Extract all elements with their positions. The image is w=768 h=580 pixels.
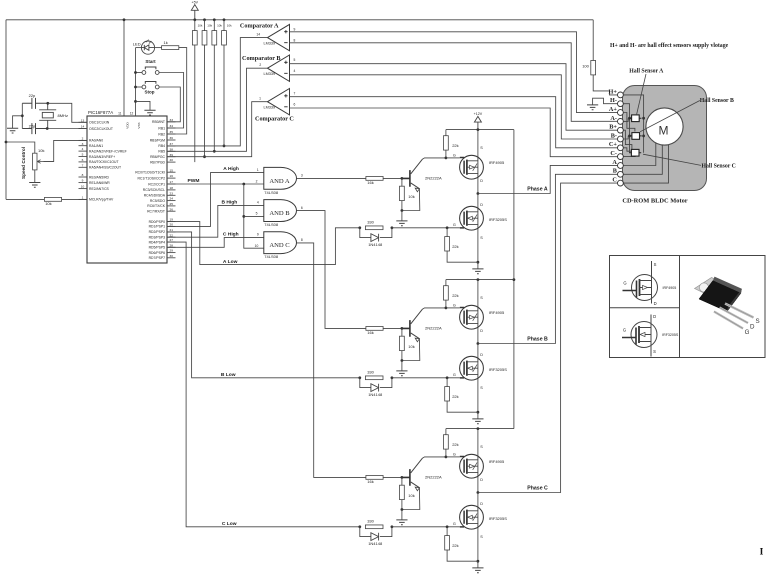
terminal C (618, 180, 624, 186)
wire pull-up4 to RB4 (223, 45, 225, 146)
svg-text:10k: 10k (408, 344, 414, 349)
pin 13 OSC1/CLKIN stub (79, 121, 88, 123)
junction base node C (401, 476, 404, 479)
wire IRF3205 S down A (477, 228, 479, 262)
svg-text:7: 7 (82, 163, 84, 167)
svg-text:RC5/SDO: RC5/SDO (150, 199, 165, 203)
svg-text:11: 11 (118, 112, 122, 116)
svg-text:3: 3 (82, 142, 84, 146)
junction RB6 pull-up (203, 155, 206, 158)
wire comparator B output to PIC (167, 68, 268, 151)
crystal X1 8MHz (42, 112, 53, 118)
svg-text:10k: 10k (217, 23, 222, 27)
svg-text:RD2/PSP2: RD2/PSP2 (149, 230, 166, 234)
svg-text:4: 4 (82, 147, 84, 151)
junction PWM to pin5 (242, 215, 245, 218)
svg-text:8: 8 (294, 39, 296, 43)
capacitor C2 22p (22, 123, 47, 134)
svg-text:2: 2 (256, 180, 258, 184)
junction gate node A (445, 157, 448, 160)
svg-text:IRF4905: IRF4905 (663, 286, 677, 290)
resistor 22k upper B (444, 286, 449, 300)
wire gate row C (392, 526, 460, 528)
pin 2 RA0/AN0 stub (79, 139, 88, 141)
wire C- to sensor (623, 155, 635, 157)
ground hall supply (587, 105, 598, 110)
pin 15 RC0/T1OSO/T1CKI stub (167, 171, 176, 173)
wire to power ground A (477, 262, 479, 268)
junction emitter 10k B (401, 359, 404, 362)
wire MCLR left (6, 198, 44, 200)
svg-text:D: D (480, 502, 483, 506)
wire hall V+ bus (623, 95, 643, 153)
svg-text:RC0/T1OSO/T1CKI: RC0/T1OSO/T1CKI (135, 171, 165, 175)
svg-text:Speed Control: Speed Control (21, 147, 26, 179)
svg-text:Stop: Stop (145, 89, 155, 94)
node pot top tap (5, 141, 8, 144)
svg-text:30: 30 (169, 254, 173, 258)
wire RD3 B High (167, 205, 264, 237)
diode 1N4148 A (360, 228, 392, 238)
svg-text:S: S (480, 445, 483, 449)
wire 10k bottom C (401, 500, 403, 510)
switch Start button (142, 71, 146, 75)
junction 330 left B (358, 376, 361, 379)
wire IRF3205 S down C (477, 527, 479, 561)
resistor 22k upper C (444, 435, 449, 449)
svg-text:2N2222A: 2N2222A (425, 325, 442, 330)
svg-text:15: 15 (169, 168, 173, 172)
svg-text:MCLR/Vpp/THV: MCLR/Vpp/THV (89, 198, 114, 202)
svg-text:18: 18 (169, 186, 173, 190)
pin 17 RC2/CCP1 stub (167, 183, 176, 185)
junction emitter 10k C (401, 508, 404, 511)
wire 22k bottom lead A (445, 150, 447, 158)
transistor QB 2N2222A (402, 320, 410, 337)
svg-text:G: G (453, 223, 456, 227)
ground driver B (396, 371, 407, 376)
svg-text:33: 33 (169, 118, 173, 122)
wire +12V feed row A (446, 129, 514, 131)
svg-text:B-: B- (611, 132, 617, 139)
leader Hall Sensor A (637, 74, 647, 115)
logic gate AND B 74LS08 (264, 200, 297, 222)
wire IRF3205 S down B (477, 378, 479, 412)
ground pot (29, 183, 40, 188)
node cap-gnd tap (21, 114, 24, 117)
pin 14 OSC2/CLKOUT stub (79, 128, 88, 130)
svg-text:22: 22 (169, 233, 173, 237)
svg-text:RD1/PSP1: RD1/PSP1 (149, 225, 166, 229)
svg-text:D: D (480, 353, 483, 357)
switch Stop button (142, 85, 146, 89)
pin 10 RE2/AN7/CS stub (79, 188, 88, 190)
svg-text:Hall Sensor C: Hall Sensor C (702, 164, 736, 170)
svg-text:20: 20 (169, 223, 173, 227)
pin 8 RE0/AN5/RD stub (79, 176, 88, 178)
terminal A+ (618, 110, 624, 116)
wire B+ to sensor (623, 130, 632, 149)
svg-text:40: 40 (169, 158, 173, 162)
pin 16 RC1/T1OSI/CCP2 stub (167, 177, 176, 179)
node OSC1 net (46, 102, 49, 105)
svg-text:38: 38 (169, 147, 173, 151)
junction 330 right C (391, 525, 394, 528)
svg-text:10: 10 (81, 185, 85, 189)
svg-text:2N2222A: 2N2222A (425, 175, 442, 180)
pin 23 RC4/SDI/SDA stub (167, 194, 176, 196)
motor M circle (646, 108, 683, 145)
wire PWM to AND B pin5 (244, 215, 264, 217)
junction sensor B V+ (642, 135, 645, 138)
svg-text:35: 35 (169, 130, 173, 134)
wire MCLR right (62, 198, 87, 200)
ground logic (144, 110, 155, 115)
svg-text:IRF3205S: IRF3205S (489, 217, 507, 222)
pin 33 RB0/INT stub (167, 121, 176, 123)
svg-text:S: S (654, 262, 657, 267)
resistor 10k pull-up 3 (212, 31, 217, 45)
node pull-up 4 rail tap (223, 18, 226, 21)
wire RD5 C High (167, 238, 264, 248)
svg-text:22k: 22k (452, 143, 458, 148)
wire 22k lower top lead A (446, 228, 448, 237)
pin 18 RC3/SCK/SCL stub (167, 189, 176, 191)
svg-text:74LS08: 74LS08 (264, 254, 279, 259)
transistor IRF3205 B (460, 356, 484, 380)
wire RD0 A Low (167, 222, 360, 265)
svg-text:+12V: +12V (474, 112, 483, 116)
pin 26 RC7/RX/DT stub (167, 210, 176, 212)
pin 24 RC5/SDO stub (167, 200, 176, 202)
svg-text:H+: H+ (609, 88, 618, 95)
terminal H- (618, 101, 624, 107)
junction feed bus C (477, 427, 480, 430)
svg-text:6: 6 (301, 206, 303, 210)
wire emitter down C (402, 488, 420, 510)
wire A- to sensor (623, 118, 628, 121)
svg-text:37: 37 (169, 142, 173, 146)
junction gate node B (445, 307, 448, 310)
svg-text:I: I (760, 548, 764, 558)
wire 22k top lead B (445, 280, 447, 286)
wire pot wiper to RA0 (44, 140, 88, 161)
junction RB4 pull-up (223, 145, 226, 148)
svg-text:10k: 10k (45, 201, 51, 206)
resistor R3 1k (162, 46, 179, 50)
svg-text:RB6/PGC: RB6/PGC (150, 155, 165, 159)
svg-text:G: G (453, 153, 456, 157)
svg-text:22k: 22k (452, 442, 458, 447)
wire pull-up R3 top lead (213, 20, 215, 31)
wire gate row B (392, 377, 460, 379)
junction sensor A V- (628, 117, 631, 120)
resistor 10k A (400, 186, 405, 200)
resistor 10k C (400, 485, 405, 499)
svg-text:1N4148: 1N4148 (368, 541, 383, 546)
wire collector to gate node B (423, 308, 446, 309)
svg-text:S: S (480, 146, 483, 150)
svg-text:9: 9 (294, 27, 296, 31)
wire to IRF4905 gate B (446, 307, 460, 309)
wire pull-up R1 top lead (194, 20, 196, 31)
junction 330 left C (358, 525, 361, 528)
svg-text:8MHz: 8MHz (58, 113, 68, 118)
wire 22k lower top lead B (446, 378, 448, 387)
wire C+ to sensor (623, 148, 631, 151)
svg-text:RE1/AN6/WR: RE1/AN6/WR (89, 181, 110, 185)
wire comparator input to hall A- (290, 43, 618, 122)
resistor 10k B (400, 336, 405, 350)
resistor 10k pull-up 1 (192, 31, 197, 45)
svg-text:16k: 16k (367, 330, 373, 335)
wire Stop to RB0 (159, 87, 180, 122)
wire comparator C output to PIC (167, 102, 268, 157)
terminal A- (618, 119, 624, 125)
wire 22k bottom lead B (445, 300, 447, 308)
svg-text:16k: 16k (367, 180, 373, 185)
svg-text:6: 6 (82, 158, 84, 162)
power symbol +12V (474, 116, 481, 129)
svg-text:M: M (659, 124, 669, 138)
svg-text:LED: LED (133, 41, 141, 46)
wire RD1 A High (167, 173, 264, 227)
svg-text:17: 17 (169, 180, 173, 184)
svg-text:A-: A- (610, 115, 617, 122)
pin 40 RB7/PGD stub (167, 161, 176, 163)
pin 19 RD0/PSP0 stub (167, 221, 176, 223)
logic gate AND A 74LS08 (264, 167, 297, 189)
junction 330 left A (358, 226, 361, 229)
wire to crystal ground (13, 116, 23, 128)
pin 22 RD3/PSP3 stub (167, 236, 176, 238)
svg-text:Comparator B: Comparator B (242, 55, 281, 62)
svg-text:RD4/PSP4: RD4/PSP4 (149, 240, 166, 244)
svg-text:1: 1 (257, 168, 259, 172)
resistor 330 C (365, 525, 383, 529)
svg-text:C Low: C Low (222, 521, 237, 527)
svg-text:4: 4 (294, 69, 296, 73)
wire bus to IRF4905 S C (477, 429, 479, 457)
svg-text:RC1/T1OSI/CCP2: RC1/T1OSI/CCP2 (137, 176, 165, 180)
wire +12V feed row B (446, 279, 514, 281)
op-amp comparator B LM339 (268, 55, 290, 81)
wire pot bottom (34, 170, 36, 182)
resistor 22k lower B (445, 387, 450, 401)
terminal H+ (618, 92, 624, 98)
svg-text:39: 39 (169, 153, 173, 157)
resistor 22k lower A (445, 237, 450, 251)
svg-text:S: S (756, 318, 760, 325)
svg-text:1N4148: 1N4148 (368, 392, 383, 397)
wire +12V feed row C (446, 428, 514, 430)
wire VDD drop to pin 11 (123, 20, 125, 116)
svg-text:330: 330 (367, 519, 374, 524)
svg-text:G: G (623, 328, 626, 333)
svg-text:RB4: RB4 (158, 144, 165, 148)
wire winding A (623, 143, 656, 166)
junction rail phase B feed (513, 278, 516, 281)
resistor 10k pull-up 2 (202, 31, 207, 45)
svg-text:10k: 10k (227, 23, 232, 27)
node VDD tap (123, 18, 126, 21)
svg-text:A Low: A Low (223, 259, 238, 265)
wire 16k to base node C (383, 476, 402, 478)
svg-text:14: 14 (81, 125, 85, 129)
svg-text:10k: 10k (198, 23, 203, 27)
junction Stop on VSS bus (134, 86, 137, 89)
svg-text:6: 6 (294, 103, 296, 107)
resistor 330 A (365, 226, 383, 230)
pin 35 RB2 stub (167, 133, 176, 135)
pin 36 RB3/PGM stub (167, 139, 176, 141)
diode 1N4148 C (360, 527, 392, 537)
power symbol +5V (191, 5, 198, 20)
node OSC2 net (46, 127, 49, 130)
svg-text:1k: 1k (164, 40, 168, 45)
wire pot top (6, 142, 35, 153)
svg-text:10k: 10k (408, 493, 414, 498)
svg-text:A High: A High (223, 166, 239, 172)
wire 22k lower to source A (447, 251, 478, 262)
wire to driver ground A (401, 211, 403, 221)
svg-text:22k: 22k (452, 543, 458, 548)
wire midpoint to IRF3205 D C (477, 493, 479, 508)
svg-text:B+: B+ (609, 124, 617, 131)
svg-text:LM339: LM339 (264, 72, 276, 76)
wire to OSC1 (48, 103, 87, 122)
ground power C (472, 568, 483, 573)
junction source B (477, 411, 480, 414)
wire LED to 1k (155, 47, 162, 49)
wire B- to sensor (623, 136, 628, 139)
svg-text:LM339: LM339 (264, 106, 276, 110)
svg-text:S: S (480, 535, 483, 539)
leader Hall Sensor B (640, 101, 700, 132)
svg-text:5: 5 (82, 153, 84, 157)
wire RD4 C Low (167, 242, 360, 527)
svg-text:IRF3205S: IRF3205S (662, 333, 679, 337)
wire 16k to base node B (383, 327, 402, 329)
wire 22k lower top lead C (446, 527, 448, 536)
svg-text:8: 8 (301, 238, 303, 242)
svg-text:22k: 22k (452, 244, 458, 249)
svg-text:B: B (613, 168, 617, 175)
svg-text:24: 24 (169, 197, 173, 201)
svg-text:A+: A+ (609, 106, 617, 113)
wire comparator input to hall C+ (290, 97, 618, 148)
junction Start on VSS bus (134, 71, 137, 74)
resistor 16k base C (366, 476, 383, 480)
svg-text:H+ and H- are hall effect sens: H+ and H- are hall effect sensors supply… (610, 43, 729, 49)
resistor 22k upper A (444, 136, 449, 150)
svg-text:OSC1/CLKIN: OSC1/CLKIN (89, 121, 110, 125)
svg-text:IRF3205S: IRF3205S (489, 367, 507, 372)
svg-text:330: 330 (367, 220, 374, 225)
pin 27 RD4/PSP4 stub (167, 241, 176, 243)
terminal C- (618, 154, 624, 160)
wire +5V rail (6, 19, 593, 21)
svg-text:RD7/PSP7: RD7/PSP7 (149, 256, 166, 260)
svg-text:S: S (480, 236, 483, 240)
wire AND B out to 16k (297, 211, 366, 329)
pin 3 RA1/AN1 stub (79, 145, 88, 147)
terminal C+ (618, 145, 624, 151)
svg-text:B Low: B Low (221, 372, 236, 378)
TO-220 package drawing (695, 277, 754, 329)
terminal B+ (618, 127, 624, 133)
pin 20 RD1/PSP1 stub (167, 225, 176, 227)
wire bus to IRF4905 S B (477, 280, 479, 308)
junction VSS ground tap (134, 100, 137, 103)
junction gate node C (445, 456, 448, 459)
junction sensor B V- (628, 135, 631, 138)
svg-text:3: 3 (301, 174, 303, 178)
wire pull-up R2 top lead (204, 20, 206, 31)
hall sensor C (631, 149, 639, 156)
transistor QA 2N2222A (402, 170, 410, 187)
svg-text:2N2222A: 2N2222A (425, 474, 442, 479)
svg-text:S: S (480, 296, 483, 300)
wire IRF4905 D to midpoint A (477, 177, 479, 193)
resistor 16k base A (366, 177, 383, 181)
pin 6 RA4/T0CKI/C1OUT stub (79, 161, 88, 163)
svg-text:H-: H- (610, 97, 617, 104)
wire 22k top lead A (445, 130, 447, 136)
svg-text:5: 5 (256, 212, 258, 216)
resistor R2 10k MCLR (44, 198, 61, 202)
svg-text:7: 7 (294, 91, 296, 95)
svg-text:100: 100 (582, 63, 589, 68)
wire IRF4905 D to midpoint C (477, 476, 479, 492)
wire Start to RB1 (159, 73, 184, 129)
wire gate row A (392, 227, 460, 229)
svg-text:RC6/TX/CK: RC6/TX/CK (147, 204, 165, 208)
svg-text:RA3/AN3/VREF+: RA3/AN3/VREF+ (89, 155, 115, 159)
svg-text:D: D (480, 329, 483, 333)
svg-text:CD-ROM BLDC Motor: CD-ROM BLDC Motor (622, 197, 687, 204)
resistor 16k base B (366, 327, 383, 331)
svg-text:34: 34 (169, 124, 173, 128)
wire pull-up1 to RB7 (194, 45, 196, 162)
node pull-up 2 rail tap (203, 18, 206, 21)
svg-text:16k: 16k (367, 479, 373, 484)
junction feed bus A (477, 128, 480, 131)
svg-text:23: 23 (169, 191, 173, 195)
op-amp comparator C LM339 (268, 89, 290, 115)
pin 25 RC6/TX/CK stub (167, 205, 176, 207)
legend IRF4905 symbol (632, 275, 658, 301)
svg-text:G: G (453, 303, 456, 307)
ground power A (472, 269, 483, 274)
wire 10k bottom A (401, 201, 403, 211)
svg-text:AND C: AND C (269, 242, 290, 249)
pin 21 RD2/PSP2 stub (167, 231, 176, 233)
svg-text:10k: 10k (207, 23, 212, 27)
pin 39 RB6/PGC stub (167, 156, 176, 158)
hall sensor A (632, 115, 640, 122)
transistor IRF4905 C (460, 454, 484, 478)
wire to power ground B (477, 412, 479, 418)
svg-text:Hall Sensor B: Hall Sensor B (700, 98, 734, 104)
pin 29 RD6/PSP6 stub (167, 252, 176, 254)
junction base node B (401, 327, 404, 330)
junction emitter 10k A (401, 209, 404, 212)
wire to driver ground C (401, 510, 403, 520)
svg-text:RB5: RB5 (158, 150, 165, 154)
svg-text:+5V: +5V (192, 0, 199, 4)
svg-text:D: D (654, 301, 657, 306)
